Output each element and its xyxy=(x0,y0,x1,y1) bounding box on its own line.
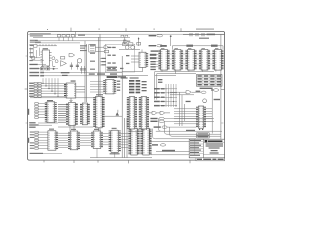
oscillator crystal Y1 xyxy=(119,43,140,50)
address label column xyxy=(150,54,157,70)
wires into U4 xyxy=(38,132,48,148)
bus stubs xyxy=(100,59,106,65)
shift register U10b xyxy=(80,103,90,125)
IC U5 xyxy=(68,131,80,150)
wires into U18 xyxy=(90,82,103,92)
zone tick right upper xyxy=(221,55,223,57)
keyboard wires xyxy=(38,104,47,118)
dot junction xyxy=(138,38,139,39)
chip bottom drops xyxy=(97,148,115,157)
long wire above bottom border xyxy=(90,157,152,159)
IC U4 xyxy=(48,131,58,150)
wires below keyboard xyxy=(38,123,58,125)
U9 right pins xyxy=(76,87,85,92)
wire to note xyxy=(43,152,62,154)
latch U12 xyxy=(127,97,137,129)
keyboard connector label xyxy=(28,109,29,115)
RAM gap wires xyxy=(170,54,213,64)
capacitor C9 xyxy=(83,66,86,74)
central gating cluster xyxy=(129,80,140,93)
gap wires U7-U8 xyxy=(121,134,129,148)
zone dots top xyxy=(47,29,155,30)
power-on reset circuit xyxy=(30,44,57,47)
inner border line right xyxy=(220,34,222,160)
transistor Q3 xyxy=(203,99,207,103)
labels near bus right xyxy=(80,45,87,51)
RAM chip 1 xyxy=(158,50,169,71)
diode D1 xyxy=(30,66,58,70)
video label xyxy=(186,130,195,131)
oscillator top boxes xyxy=(121,35,128,37)
sheet number text above border right xyxy=(196,28,214,29)
cluster labels right xyxy=(142,81,147,91)
zone tick right lower xyxy=(221,122,223,124)
caps row label xyxy=(207,34,215,36)
small box U2 xyxy=(32,57,35,60)
IC U6 xyxy=(91,131,103,148)
zone tick left upper xyxy=(26,55,28,57)
bus lines into U6 xyxy=(80,133,91,145)
oval tags lower xyxy=(159,117,214,122)
resistor R4 vertical xyxy=(124,37,126,44)
RAM config table xyxy=(196,75,222,87)
zone tick marks bottom xyxy=(44,160,190,163)
zone tick left lower xyxy=(26,122,28,124)
tag rows lower xyxy=(150,118,157,122)
bypass caps top right row xyxy=(183,33,224,36)
keyboard encoder U3 xyxy=(45,102,57,123)
sub-box label pairs xyxy=(108,47,130,69)
cassette label xyxy=(28,138,29,143)
capacitor C6 xyxy=(76,62,79,69)
timer IC U1 xyxy=(41,50,52,66)
label boxes below U1 xyxy=(40,67,44,70)
note text bottom-left xyxy=(30,153,43,154)
RAM bottom bus merge xyxy=(155,70,216,100)
gap wires U6-U7 xyxy=(103,134,109,145)
ladder rows mid-right xyxy=(154,79,162,106)
ground below U9 xyxy=(69,98,72,101)
small boxes above title block xyxy=(197,133,210,138)
left edge pin labels xyxy=(29,48,33,61)
ladder resistor boxes xyxy=(161,88,165,106)
bottom strip xyxy=(189,157,224,159)
drops below U10 xyxy=(70,125,74,130)
gate cluster right of relay xyxy=(95,46,114,53)
stubs into U14 xyxy=(131,49,142,62)
aux rail xyxy=(35,42,80,44)
video shifter U10 xyxy=(66,103,78,126)
tag row y145 xyxy=(152,144,166,146)
wire below U10 xyxy=(58,126,93,128)
labels right of main bus xyxy=(101,58,117,71)
signal rows with labels (game I/O) xyxy=(29,82,66,97)
speaker labels xyxy=(61,72,70,76)
bus taps vertical xyxy=(43,78,58,97)
cluster top labels xyxy=(121,77,139,78)
ROM U8b xyxy=(140,128,151,155)
label LS xyxy=(118,76,126,77)
cap C7 vertical xyxy=(137,37,141,46)
tap junction dots xyxy=(42,83,58,97)
transistor Q1b xyxy=(55,60,58,63)
reset line label xyxy=(29,64,37,65)
sub-box outline xyxy=(105,44,135,72)
bottom label rows xyxy=(89,73,117,74)
bus lines into U5 xyxy=(58,133,68,147)
rev table rows xyxy=(189,139,224,154)
merge wires below U12 U13 xyxy=(131,129,143,136)
1MHz label xyxy=(186,101,191,102)
wires feeding title area from left xyxy=(156,130,161,132)
chip top labels bottom row xyxy=(49,128,117,130)
label below caps xyxy=(199,38,209,39)
relay internals xyxy=(90,46,94,50)
vertical bus lines left-center xyxy=(85,34,146,157)
U1 label xyxy=(43,48,48,49)
zone tick left edge xyxy=(25,88,28,90)
connector row label A xyxy=(29,72,39,73)
connector pin labels bottom group xyxy=(30,132,34,149)
notes text block top-left xyxy=(30,33,51,42)
misc box xyxy=(60,57,64,59)
zone tick right edge xyxy=(221,88,225,90)
op-amp A1 xyxy=(61,61,67,67)
RAM chip 5 xyxy=(212,50,223,71)
RAM bracket top xyxy=(172,46,223,50)
label above U9 xyxy=(71,80,76,81)
cap bank stubs xyxy=(59,37,73,41)
color gen verticals xyxy=(180,92,185,126)
oval tags top xyxy=(157,35,165,53)
tag row y127 xyxy=(154,126,196,128)
RAM chip 2 xyxy=(172,50,183,71)
wire reset xyxy=(38,64,46,66)
right long vertical wire xyxy=(211,88,213,134)
wire row A xyxy=(44,72,122,74)
company text rows xyxy=(206,143,223,153)
logo xyxy=(205,140,208,142)
inner border line top xyxy=(28,33,225,35)
stub ladder left of U10 xyxy=(58,105,66,123)
keyboard connector boxes xyxy=(35,103,38,119)
junction dots on ladder xyxy=(165,88,176,106)
RAM bracket labels xyxy=(160,45,217,47)
arrow right of U11 xyxy=(105,110,123,116)
character ROM U11 xyxy=(93,96,104,127)
vertical feed from border xyxy=(74,32,76,38)
label above U11 xyxy=(96,94,103,95)
long bus wire xyxy=(30,97,96,99)
labels right of U18 xyxy=(117,81,120,91)
reset label xyxy=(29,44,33,45)
ladder wires and verticals xyxy=(160,84,177,107)
table caption xyxy=(200,88,213,89)
wires power-on xyxy=(30,48,52,66)
capacitor labels xyxy=(78,35,85,36)
label INT xyxy=(29,68,39,69)
flip-flop U9 xyxy=(64,83,76,98)
speaker driver transistor Q2 xyxy=(77,59,81,63)
bus labels left xyxy=(90,45,95,70)
video out wires xyxy=(170,91,201,95)
label above keyboard encoder xyxy=(47,100,53,101)
RAM chip 3 xyxy=(185,50,196,71)
clock gen U14 xyxy=(139,52,148,67)
ROM U8 xyxy=(128,128,139,155)
gate row xyxy=(148,111,170,114)
capacitor C5 xyxy=(70,62,73,69)
connector row label B xyxy=(29,75,39,76)
wire row B xyxy=(44,75,122,77)
relay box mid-top xyxy=(89,44,96,52)
nested wires to video connector xyxy=(150,119,222,155)
connector row box B xyxy=(40,75,44,77)
ground rail xyxy=(35,40,128,42)
connector row box A xyxy=(40,72,44,74)
video DIP U17 xyxy=(196,106,206,128)
latch U13 xyxy=(139,97,149,129)
capacitor C8 xyxy=(80,66,83,74)
RAM chip name labels xyxy=(161,47,218,50)
bypass capacitor bank C1-C4 xyxy=(57,35,74,37)
zone tick marks top xyxy=(71,28,181,32)
stubs into U17 xyxy=(174,109,212,124)
dots below U17 xyxy=(199,129,203,130)
title block xyxy=(189,139,224,161)
wire down from U14 xyxy=(122,67,148,75)
gate G1 xyxy=(69,53,75,56)
q3 label xyxy=(214,99,220,100)
video out labels xyxy=(196,89,219,94)
sheet border frame xyxy=(28,32,225,161)
address wires into RAM row xyxy=(156,55,158,67)
power label xyxy=(162,150,175,152)
IC U18 xyxy=(103,80,116,94)
DIP column boxes bottom-left xyxy=(35,131,38,149)
labels below keyboard xyxy=(29,122,38,128)
label box 2 below U1 xyxy=(46,67,50,70)
vertical wire x170 xyxy=(170,36,171,47)
label near R4 xyxy=(127,41,130,42)
label under U7 xyxy=(110,153,120,154)
+5V power rail xyxy=(33,36,130,38)
transistor Q1a xyxy=(52,57,55,60)
CPU 6502 U7 xyxy=(109,130,121,152)
RAM chip 4 xyxy=(199,50,210,71)
dark box mid xyxy=(107,76,118,78)
wire row xyxy=(30,59,44,61)
top-left tag rows xyxy=(149,35,158,52)
